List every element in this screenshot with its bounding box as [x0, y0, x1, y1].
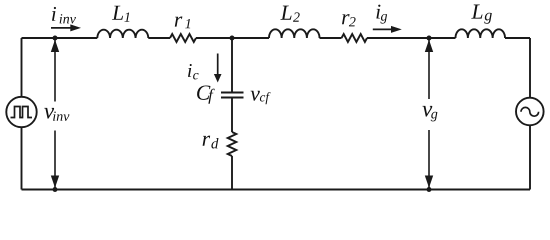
label L1 subscript	[124, 12, 129, 21]
resistor r2	[342, 34, 368, 42]
v_g arrowhead up	[425, 40, 433, 52]
inductor L2	[269, 29, 320, 38]
label v_g	[422, 106, 432, 117]
inductor L1	[97, 30, 148, 38]
label L2	[280, 6, 291, 20]
label r2 subscript	[349, 17, 356, 26]
label v_g subscript	[431, 112, 438, 122]
label L2 subscript	[293, 12, 300, 21]
label rd	[203, 136, 211, 146]
label i_inv subscript	[60, 14, 76, 23]
label v_inv	[44, 108, 54, 119]
wire bottom rail	[22, 189, 531, 191]
wire top-left segment	[22, 37, 98, 39]
label Lg subscript	[484, 13, 492, 24]
label v_inv subscript	[53, 112, 69, 121]
i_inv arrowhead	[70, 24, 81, 31]
wire left rail lower	[21, 127, 23, 189]
inductor Lg	[456, 29, 506, 38]
wire r2 to node B	[367, 37, 456, 39]
wire r1 to node A	[196, 37, 269, 39]
label Lg	[471, 5, 482, 19]
wire node A down to Cf	[231, 38, 233, 93]
v_inv arrowhead up	[51, 40, 59, 52]
label L1	[112, 6, 123, 20]
i_g arrowhead	[391, 26, 402, 33]
label i_g subscript	[381, 14, 388, 24]
wire right rail lower	[529, 126, 531, 190]
wire left rail upper	[21, 38, 23, 97]
i_c arrow line	[217, 54, 219, 75]
v_inv measure line upper	[54, 40, 56, 102]
label Cf subscript	[208, 89, 214, 104]
wire Cf to rd	[231, 98, 233, 133]
label i_c	[188, 64, 192, 77]
label i_c subscript	[193, 73, 198, 79]
node v_g top junction dot	[427, 36, 432, 41]
wire rd to bottom rail	[231, 156, 233, 190]
label rd subscript	[211, 138, 218, 149]
label r2	[342, 14, 350, 24]
label i_inv	[52, 7, 56, 21]
wire right rail upper	[529, 38, 531, 98]
sine glyph	[521, 107, 539, 116]
resistor r1	[170, 34, 196, 42]
label r1	[175, 16, 183, 26]
node A junction dot	[230, 36, 235, 41]
i_g arrow line	[373, 28, 392, 30]
node v_inv bottom junction dot	[53, 187, 58, 192]
v_g arrowhead down	[425, 176, 433, 188]
source V_inv circle	[6, 97, 36, 127]
wire L2 to r2	[320, 37, 342, 39]
v_g measure line lower	[428, 130, 430, 188]
source V_g circle	[516, 98, 544, 126]
square-wave glyph	[11, 107, 33, 118]
label v_cf subscript	[260, 92, 271, 104]
v_inv measure line lower	[54, 131, 56, 188]
label Cf	[197, 85, 210, 99]
wire Lg to right rail	[505, 37, 530, 39]
label v_cf	[251, 91, 260, 101]
wire L1 to r1	[148, 37, 170, 39]
label r1 subscript	[185, 19, 190, 28]
resistor rd	[228, 132, 237, 156]
label i_g	[376, 5, 380, 19]
node v_g bottom junction dot	[427, 187, 432, 192]
v_g measure line upper	[428, 40, 430, 99]
v_inv arrowhead down	[51, 176, 59, 188]
node v_inv top junction dot	[53, 36, 58, 41]
i_c arrowhead	[214, 74, 222, 83]
i_inv arrow line	[51, 27, 71, 29]
capacitor Cf plates	[221, 93, 244, 98]
